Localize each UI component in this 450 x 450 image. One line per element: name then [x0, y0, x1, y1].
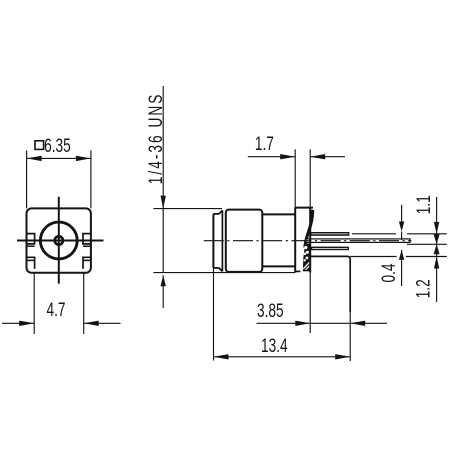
front view: outer circle (connector body) [40, 222, 77, 259]
dimension 1.1/1.2: shared vertical dimension line [436, 197, 438, 302]
dimension 6.35: dimension line with arrows [27, 157, 91, 159]
svg-text:4.7: 4.7 [46, 299, 65, 321]
side view: chamfer ring edge [221, 210, 223, 271]
side view: top chamfer [219, 211, 223, 215]
dimension 13.4: left extension line [213, 268, 215, 361]
dimension 1/4-36 UNS: vertical dimension line [162, 86, 164, 273]
front view: left bottom solder-leg notch [27, 257, 35, 269]
dimension 4.7: dimension line left part with arrow [2, 322, 34, 324]
side view: bottom chamfer [219, 268, 223, 272]
dimension 6.35: left extension line [26, 151, 28, 209]
side view: bottom leg right extension line to 13.4 dim [349, 311, 351, 361]
svg-text:1.7: 1.7 [255, 133, 274, 155]
svg-text:1.1: 1.1 [413, 195, 435, 214]
svg-text:6.35: 6.35 [44, 135, 71, 157]
dimension 0.4: vertical line lower part with arrow [399, 250, 404, 260]
side view: front face of connector [212, 214, 214, 268]
side view: upper solder leg [310, 232, 349, 236]
dimension 1/4-36 UNS: upper extension line (thread top) [154, 208, 223, 210]
side view: centerline dash-dot [204, 240, 412, 242]
side view: top step edge [213, 213, 218, 215]
front view: left middle solder-leg notch [27, 234, 35, 244]
svg-text:1/4-36 UNS: 1/4-36 UNS [145, 93, 167, 185]
dimension 4.7: dimension line right part with arrow [84, 322, 121, 324]
side view: neck bottom edge [262, 265, 295, 267]
side view: flange bottom hook [295, 270, 300, 272]
front view: right bottom solder-leg notch [83, 257, 91, 269]
side view: insulator bushing dark section with hatch [305, 210, 313, 248]
front view: left leg edge / extension line for 4.7 dim [33, 273, 35, 334]
svg-text:13.4: 13.4 [261, 335, 288, 357]
svg-text:3.85: 3.85 [257, 300, 284, 322]
dimension 0.4: vertical line upper part with arrow [401, 205, 403, 229]
dimension 1.7: left extension line [294, 149, 296, 207]
dimension 1.7: dimension line right tail with arrow [310, 156, 345, 158]
dimension 6.35: square symbol [35, 141, 44, 150]
dimension 1/4-36 UNS: lower extension line (thread bottom) [154, 272, 296, 274]
front view: right leg edge / extension line for 4.7 dim [83, 273, 85, 334]
side view: flange right face extension line down to 3.85 dim [309, 149, 311, 333]
front view: right middle solder-leg notch [83, 234, 91, 244]
side view: bottom leg top edge and right edge [311, 256, 350, 312]
svg-text:0.4: 0.4 [378, 263, 400, 282]
side view: flange left face [294, 208, 296, 273]
dimension 3.85: dimension line with outside arrows [257, 322, 311, 324]
side view: bottom step edge [213, 267, 218, 269]
side view: lower solder leg [311, 247, 349, 251]
svg-text:1.2: 1.2 [412, 279, 434, 298]
dimension 1/4-36 UNS: lower outside arrow [162, 275, 164, 308]
side view: neck top edge [262, 213, 295, 215]
side view: flange plate top edge [295, 207, 313, 209]
dimension 1.1: extension line (upper leg top edge) [352, 233, 396, 235]
front view: vertical centerline [58, 197, 60, 284]
dimension 13.4: dimension line with arrows [214, 356, 351, 358]
front view: inner circle (center contact) [53, 235, 64, 246]
front view: horizontal centerline [17, 240, 104, 242]
dimension 6.35: right extension line [90, 151, 92, 209]
side view: flange right face thick segment [309, 208, 311, 273]
side view: insulator foot bottom edge [303, 270, 310, 272]
dimension 1.7: dimension line left tail with arrow [248, 156, 295, 158]
side view: threaded body [226, 210, 262, 272]
dimension 1.2: extension line (bottom leg top edge) [350, 256, 396, 258]
dimension 1.1/1.2: middle extension line [407, 243, 447, 245]
side view: center pin [306, 239, 410, 243]
front view: square flange body [27, 208, 91, 272]
